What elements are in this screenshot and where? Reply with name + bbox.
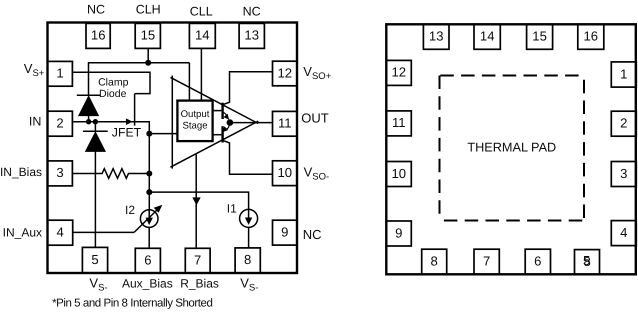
svg-text:NC: NC bbox=[303, 227, 322, 242]
pin 2 box bbox=[48, 111, 73, 136]
wire bias to I1 bbox=[149, 192, 248, 209]
pin 14 box bbox=[189, 23, 215, 48]
I2 adjust arrow diagonal bbox=[134, 206, 162, 233]
pkg pin 14 box bbox=[474, 24, 500, 49]
transistor Q1 emitter arrow bbox=[223, 112, 229, 119]
svg-text:Diode: Diode bbox=[99, 88, 127, 100]
svg-text:NC: NC bbox=[243, 5, 261, 19]
pin 2 label IN bbox=[29, 115, 42, 129]
pin 9 label NC bbox=[303, 227, 322, 242]
arrow on R_Bias line bbox=[192, 197, 200, 205]
svg-text:6: 6 bbox=[534, 254, 541, 269]
svg-text:Aux_Bias: Aux_Bias bbox=[122, 276, 173, 290]
wire clamp box to JFET gate bbox=[134, 94, 136, 126]
svg-text:10: 10 bbox=[278, 165, 293, 180]
wire pin1 to clamp box bbox=[72, 71, 88, 73]
svg-text:OUT: OUT bbox=[301, 110, 329, 125]
svg-text:NC: NC bbox=[87, 3, 105, 17]
diode D2 lower clamp bbox=[83, 122, 108, 152]
svg-text:9: 9 bbox=[395, 225, 402, 240]
svg-text:IN_Bias: IN_Bias bbox=[0, 165, 42, 179]
svg-text:Clamp: Clamp bbox=[98, 77, 129, 89]
wire JFET drain to output stage bbox=[134, 122, 178, 134]
transistor Q2 collector bbox=[223, 140, 273, 174]
node JFET source junction bbox=[146, 131, 152, 137]
svg-text:15: 15 bbox=[141, 28, 156, 43]
wire I2 to pin 6 bbox=[148, 227, 150, 248]
pin 4 box bbox=[48, 220, 73, 245]
svg-text:VSO-: VSO- bbox=[304, 165, 330, 183]
svg-text:15: 15 bbox=[532, 29, 547, 44]
pkg pin 2 box bbox=[611, 111, 636, 136]
label JFET bbox=[112, 126, 142, 140]
svg-text:16: 16 bbox=[584, 29, 599, 44]
svg-text:THERMAL PAD: THERMAL PAD bbox=[467, 141, 556, 155]
svg-text:5: 5 bbox=[583, 253, 590, 268]
resistor R1 from pin 3 bbox=[72, 169, 149, 179]
op-amp U1 triangle bbox=[170, 76, 258, 169]
svg-text:VS+: VS+ bbox=[24, 61, 45, 79]
svg-text:*Pin 5 and Pin 8 Internally Sh: *Pin 5 and Pin 8 Internally Shorted bbox=[52, 297, 213, 309]
diode D1 upper clamp bbox=[77, 95, 101, 122]
wire output to pin 11 bbox=[230, 122, 273, 124]
svg-text:I1: I1 bbox=[227, 201, 237, 215]
pkg pin 6 box bbox=[525, 249, 550, 274]
svg-text:3: 3 bbox=[56, 165, 63, 180]
pin 8 box bbox=[235, 248, 260, 273]
wire VS+ top rail to CLH and output stage bbox=[89, 63, 190, 95]
wire pin4 to I2 bbox=[72, 231, 134, 233]
pin 3 box bbox=[48, 161, 73, 186]
wire output stage to Q2 base bbox=[212, 134, 222, 136]
pin 12 box bbox=[273, 61, 298, 86]
svg-text:6: 6 bbox=[144, 252, 151, 267]
wire output stage to Q1 base bbox=[212, 110, 222, 112]
node CLH junction bbox=[145, 60, 151, 66]
svg-text:14: 14 bbox=[195, 28, 210, 43]
svg-text:8: 8 bbox=[431, 254, 438, 269]
svg-text:14: 14 bbox=[480, 29, 495, 44]
svg-text:11: 11 bbox=[278, 116, 292, 131]
pin 6 label Aux_Bias bbox=[122, 276, 173, 290]
svg-text:I2: I2 bbox=[125, 203, 135, 217]
svg-text:2: 2 bbox=[56, 116, 63, 131]
pkg pin 5/8 box bottom right bbox=[575, 250, 600, 275]
current source I1 bbox=[240, 209, 258, 227]
node on pin2 wire at D1 bbox=[86, 119, 91, 124]
wire D2 anode to pin 5 bbox=[94, 151, 96, 247]
transistor Q2 base bar bbox=[221, 126, 223, 142]
pin 10 label VSO- bbox=[304, 165, 330, 183]
pin 6 box bbox=[135, 248, 160, 273]
pin 3 label IN_Bias bbox=[0, 165, 42, 179]
transistor Q1 collector bbox=[223, 72, 273, 105]
node output junction bbox=[227, 119, 234, 126]
svg-text:CLH: CLH bbox=[136, 3, 161, 17]
pin 7 box bbox=[185, 248, 210, 273]
svg-text:1: 1 bbox=[620, 66, 627, 81]
svg-text:5: 5 bbox=[91, 252, 98, 267]
pin 15 label CLH bbox=[136, 3, 161, 17]
current source I2 bbox=[140, 210, 158, 228]
wire R_Bias pin7 riser bbox=[195, 155, 197, 249]
svg-text:7: 7 bbox=[483, 254, 490, 269]
clamp diode box bbox=[89, 72, 151, 93]
label THERMAL PAD bbox=[467, 141, 556, 155]
wire I1 to pin 8 bbox=[248, 227, 250, 248]
svg-text:12: 12 bbox=[278, 65, 293, 80]
label I1 bbox=[227, 201, 237, 215]
pin 9 box bbox=[273, 220, 298, 245]
node resistor junction bbox=[146, 171, 152, 177]
label Clamp Diode bbox=[98, 77, 129, 101]
svg-text:CLL: CLL bbox=[190, 5, 213, 19]
svg-text:IN_Aux: IN_Aux bbox=[3, 225, 42, 239]
transistor Q2 emitter arrow bbox=[223, 126, 229, 132]
pin 11 box bbox=[273, 111, 298, 136]
footnote bbox=[52, 297, 213, 309]
pin 7 label R_Bias bbox=[180, 276, 219, 290]
node bias tee junction bbox=[146, 189, 152, 195]
svg-text:9: 9 bbox=[281, 225, 288, 240]
svg-text:12: 12 bbox=[392, 65, 407, 80]
svg-text:11: 11 bbox=[392, 115, 406, 130]
pkg pin 16 box bbox=[578, 24, 604, 49]
wire bias rail vertical bbox=[148, 134, 150, 210]
svg-text:8: 8 bbox=[244, 252, 251, 267]
svg-text:1: 1 bbox=[56, 66, 63, 81]
svg-text:13: 13 bbox=[244, 28, 259, 43]
pin 5 box bbox=[82, 247, 107, 272]
svg-text:10: 10 bbox=[392, 166, 407, 181]
pkg pin 1 box bbox=[611, 62, 636, 87]
pkg pin 12 box bbox=[386, 60, 411, 85]
pkg pin 13 box bbox=[423, 24, 449, 49]
pkg pin 7 box bbox=[474, 249, 499, 274]
pin 8 label VS- bbox=[240, 276, 258, 294]
label I2 bbox=[125, 203, 135, 217]
pin 4 label IN_Aux bbox=[3, 225, 42, 239]
pin 14 label CLL bbox=[190, 5, 213, 19]
svg-text:R_Bias: R_Bias bbox=[180, 276, 219, 290]
pkg pin 10 box bbox=[386, 162, 411, 187]
svg-text:Output: Output bbox=[181, 109, 210, 120]
pkg pin 15 box bbox=[527, 24, 553, 49]
svg-text:VS-: VS- bbox=[89, 276, 107, 294]
svg-text:7: 7 bbox=[194, 252, 201, 267]
pkg pin 11 box bbox=[386, 111, 411, 136]
transistor Q1 base bar bbox=[221, 103, 223, 119]
pin 15 box bbox=[135, 23, 160, 48]
pkg pin 9 box bbox=[386, 221, 411, 246]
wire CLL pin14 to output stage bbox=[200, 48, 202, 100]
svg-text:Stage: Stage bbox=[182, 121, 207, 132]
svg-text:VSO+: VSO+ bbox=[303, 64, 331, 82]
pin 16 box bbox=[86, 23, 110, 48]
JFET gate arrow bbox=[126, 119, 131, 124]
svg-text:13: 13 bbox=[429, 29, 444, 44]
pin 5 label VS- bbox=[89, 276, 107, 294]
output stage box bbox=[177, 101, 212, 142]
pkg pin 8 box bottom left bbox=[422, 249, 447, 274]
node on pin2 wire at D2 bbox=[93, 119, 98, 124]
pkg pin 4 box bbox=[611, 221, 636, 246]
wire CLH rail drop to output stage bbox=[188, 63, 190, 101]
pin 1 box bbox=[48, 61, 73, 86]
svg-text:VS-: VS- bbox=[240, 276, 258, 294]
pin 16 label NC bbox=[87, 3, 105, 17]
pin 13 label NC bbox=[243, 5, 261, 19]
svg-text:3: 3 bbox=[620, 166, 627, 181]
pin 11 label OUT bbox=[301, 110, 329, 125]
pin 10 box bbox=[273, 161, 298, 186]
svg-text:2: 2 bbox=[620, 116, 627, 131]
wire CLH pin15 drop bbox=[147, 48, 149, 62]
svg-text:4: 4 bbox=[56, 225, 63, 240]
pin 1 label VS+ bbox=[24, 61, 45, 79]
svg-text:JFET: JFET bbox=[112, 126, 142, 140]
svg-text:16: 16 bbox=[91, 28, 106, 43]
svg-text:IN: IN bbox=[29, 115, 42, 129]
thermal pad dashed outline bbox=[440, 76, 585, 221]
pin 12 label VSO+ bbox=[303, 64, 331, 82]
wire pin2 input bbox=[72, 121, 134, 123]
package outline right block bbox=[386, 24, 636, 274]
svg-text:4: 4 bbox=[620, 225, 627, 240]
pin 13 box bbox=[239, 23, 264, 48]
IC outline left block bbox=[48, 23, 298, 274]
pkg pin 3 box bbox=[611, 162, 636, 187]
